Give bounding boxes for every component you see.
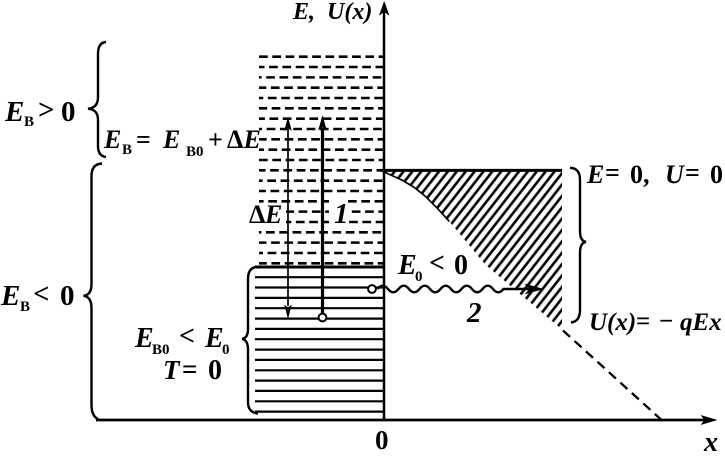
svg-text:0: 0	[61, 96, 76, 128]
brace: E_B < 0 range	[84, 164, 103, 420]
band top edge: level E_B0	[255, 266, 383, 269]
hatched barrier region between E=0 level and U(x) curve	[383, 169, 562, 329]
svg-text:1: 1	[334, 198, 349, 230]
wavy arrow 2: tunnelling through the barrier	[378, 286, 532, 293]
svg-text:U(x): U(x)	[589, 309, 636, 336]
svg-text:В: В	[24, 114, 34, 130]
svg-text:E: E	[4, 96, 24, 128]
svg-text:>: >	[38, 94, 55, 126]
svg-text:=: =	[136, 125, 151, 154]
electron circle at level E_0	[368, 285, 376, 293]
label background knockouts	[245, 203, 286, 227]
arrow 1: electron excitation from E_B0 level	[321, 128, 324, 313]
svg-text:=: =	[605, 158, 620, 187]
svg-text:x: x	[703, 427, 718, 453]
svg-text:E: E	[103, 125, 121, 154]
svg-text:T: T	[163, 355, 181, 385]
svg-text:0: 0	[222, 342, 230, 358]
svg-text:2: 2	[466, 297, 482, 329]
barrier top edge at E = 0 level	[381, 169, 563, 172]
svg-text:0: 0	[208, 355, 222, 386]
brace: potential drop qEx at right	[570, 168, 586, 323]
electron circle at bottom of arrow 1	[319, 314, 327, 322]
svg-text:Δ: Δ	[227, 125, 243, 154]
svg-text:E: E	[243, 125, 261, 154]
svg-text:<: <	[429, 248, 445, 279]
double arrow Delta E	[287, 129, 289, 306]
svg-text:0: 0	[60, 280, 75, 312]
svg-text:E,: E,	[292, 0, 315, 25]
brace: E_B > 0 range	[88, 42, 106, 157]
svg-text:U(x): U(x)	[327, 0, 372, 25]
svg-text:E: E	[397, 250, 417, 281]
svg-text:В: В	[20, 299, 30, 315]
svg-text:0: 0	[415, 269, 423, 285]
svg-text:E: E	[134, 323, 154, 354]
svg-text:E: E	[586, 160, 604, 189]
brace: filled band E_B0 < E_0, T = 0	[242, 267, 258, 414]
svg-text:Δ: Δ	[249, 200, 265, 229]
solid level lines: filled states, T = 0	[255, 277, 383, 411]
svg-text:0,: 0,	[630, 160, 650, 189]
svg-text:<: <	[33, 278, 50, 310]
svg-text:=: =	[182, 354, 197, 384]
svg-text:+: +	[208, 125, 223, 154]
svg-text:0: 0	[710, 160, 723, 189]
svg-text:E: E	[264, 200, 282, 229]
y-axis	[383, 11, 386, 421]
svg-text:U: U	[665, 160, 685, 189]
svg-text:E: E	[0, 280, 20, 312]
svg-text:=: =	[685, 158, 700, 187]
svg-text:0: 0	[454, 250, 468, 281]
rounded potential curve near metal surface	[383, 172, 449, 222]
svg-text:В: В	[122, 142, 132, 158]
svg-text:<: <	[179, 321, 195, 352]
svg-text:E: E	[204, 323, 224, 354]
x-axis	[96, 419, 706, 422]
svg-text:E: E	[162, 125, 180, 154]
svg-text:qEx: qEx	[680, 309, 722, 336]
dashed line U(x) = -qEx continuing to x-axis	[563, 331, 661, 420]
svg-text:=: =	[636, 308, 650, 335]
svg-text:В0: В0	[186, 144, 204, 160]
svg-text:0: 0	[375, 425, 389, 453]
dashed level lines: allowed band E_B > 0	[259, 57, 383, 264]
svg-text:−: −	[659, 308, 673, 335]
